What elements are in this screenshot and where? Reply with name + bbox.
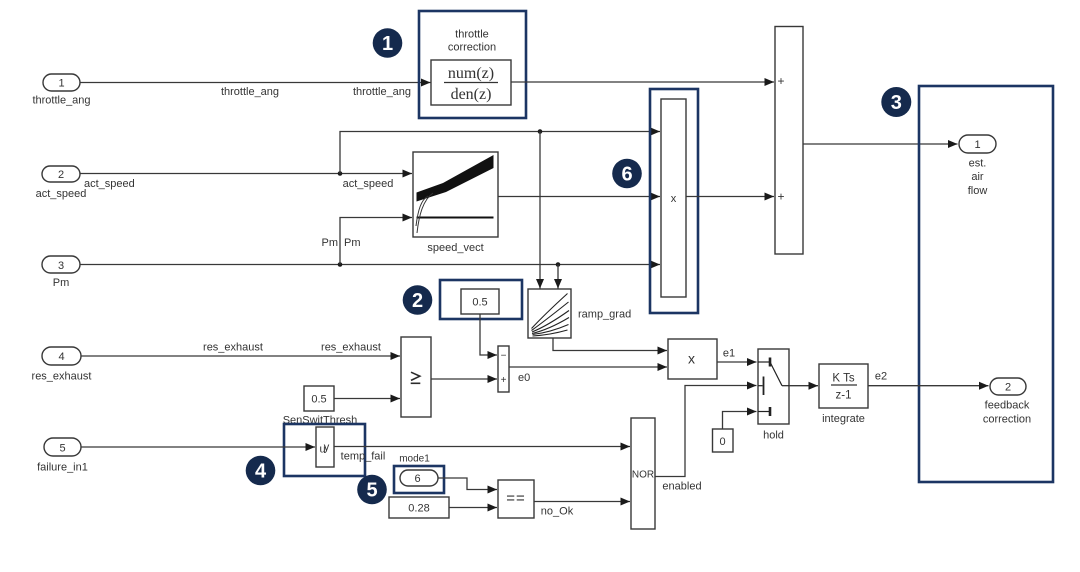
relational operator >= [401,337,431,417]
svg-text:+: + [501,375,507,386]
svg-text:5: 5 [59,443,65,455]
svg-text:e1: e1 [723,348,735,360]
svg-text:air: air [971,171,984,183]
svg-text:x: x [688,351,695,367]
annotation badge 2 [403,285,433,315]
svg-text:Pm: Pm [322,237,339,249]
svg-text:throttle_ang: throttle_ang [32,95,90,107]
svg-text:correction: correction [448,42,496,54]
inport 5 failure_in1 [37,438,88,474]
wire speed_vect to product [498,196,660,198]
logic block NOR [631,418,655,529]
wire switch to integrate [789,385,818,387]
wire 0.5 to sum e0 minus [480,314,497,355]
lookup block ramp_grad [528,289,631,338]
transfer-function block throttle correction num(z)/den(z) [431,60,511,105]
svg-text:ramp_grad: ramp_grad [578,309,631,321]
highlight box around constant 0.5 [440,280,522,319]
wire e0 to product [509,367,667,384]
wire e1 to switch [717,348,757,363]
svg-text:integrate: integrate [822,413,865,425]
discrete transfer block integrate K Ts / z-1 [819,364,868,425]
wire act_speed to speed_vect [80,171,412,190]
wire Pm to product [80,262,660,267]
highlight box around product [650,89,698,313]
highlight box around throttle correction [419,11,526,118]
wire e2 to outport 2 [868,371,989,386]
svg-text:Pm: Pm [344,237,361,249]
svg-text:e2: e2 [875,371,887,383]
switch hold [758,349,789,442]
svg-text:res_exhaust: res_exhaust [203,342,263,354]
svg-text:4: 4 [255,461,267,483]
svg-text:3: 3 [58,260,64,272]
svg-text:speed_vect: speed_vect [427,242,483,254]
wire 0.5 threshold to relational operator [334,398,400,400]
svg-text:K Ts: K Ts [832,373,854,385]
svg-text:feedback: feedback [985,400,1030,412]
inport 3 Pm [42,256,80,289]
constant 0.5 (threshold) [304,386,334,411]
svg-text:x: x [671,193,677,205]
svg-text:e0: e0 [518,372,530,384]
svg-text:den(z): den(z) [451,86,492,103]
wire Pm branch up to speed_vect input 2 [322,218,413,265]
svg-text:est.: est. [969,158,987,170]
wire branch down to ramp_grad input 1 [539,132,541,289]
svg-text:hold: hold [763,430,784,442]
wire 0.28 to equality [449,507,497,509]
svg-text:6: 6 [621,164,632,186]
inport 4 res_exhaust [32,347,92,383]
highlight box outputs [919,86,1053,482]
wire ramp_grad to product e1 [553,338,667,351]
wire enabled NOR to switch [655,386,757,493]
svg-text:throttle: throttle [455,29,489,41]
annotation badge 5 [357,475,387,505]
svg-text:0.5: 0.5 [311,394,326,406]
svg-text:NOR: NOR [632,470,654,481]
svg-text:1: 1 [382,33,393,55]
svg-text:6: 6 [414,473,420,485]
wire throttle_ang to throttle correction [80,83,431,99]
wire sum to outport 1 [803,143,958,145]
svg-text:+: + [777,190,784,204]
wire act_speed branch up to product [340,129,660,173]
svg-text:2: 2 [1005,382,1011,394]
inport 2 act_speed [36,166,87,200]
product block x (e1) [668,339,717,379]
svg-text:5: 5 [366,480,377,502]
wire relational operator to sum e0 plus [431,378,497,380]
svg-text:Pm: Pm [53,277,70,289]
svg-text:correction: correction [983,414,1031,426]
svg-text:+: + [777,74,784,88]
annotation badge 4 [246,456,276,486]
svg-text:act_speed: act_speed [84,178,135,190]
svg-text:act_speed: act_speed [36,188,87,200]
svg-text:1: 1 [58,78,64,90]
sum block e0 [498,346,509,392]
constant mode1 oval 6 [400,470,438,486]
sum block [775,27,803,255]
svg-text:temp_fail: temp_fail [341,451,386,463]
block SenSwitThresh [316,427,334,467]
svg-text:failure_in1: failure_in1 [37,462,88,474]
constant 0.5 (ramp reference) [461,289,499,314]
outport 1 est. air flow [959,135,996,197]
svg-text:no_Ok: no_Ok [541,506,574,518]
svg-text:4: 4 [58,351,64,363]
relational operator == [498,480,534,518]
svg-text:0.28: 0.28 [408,503,429,515]
wire product to sum [686,196,774,198]
annotation badge 1 [373,28,403,58]
wire mode1 to equality [438,478,497,490]
svg-text:1: 1 [974,139,980,151]
svg-text:res_exhaust: res_exhaust [321,342,381,354]
wire no_Ok to NOR [534,502,630,518]
svg-text:enabled: enabled [662,481,701,493]
svg-text:res_exhaust: res_exhaust [32,371,92,383]
svg-text:2: 2 [412,290,423,312]
svg-text:2: 2 [58,169,64,181]
wire failure_in1 to SenSwitThresh [81,446,315,448]
svg-text:z-1: z-1 [836,390,852,402]
inport 1 throttle_ang [32,74,90,107]
wire temp_fail to NOR [334,447,630,463]
outport 2 feedback correction [983,378,1031,426]
constant 0 [713,429,734,452]
wire 0 to switch [723,412,757,430]
wire Pm branch down to ramp_grad input 2 [557,265,559,289]
svg-text:−: − [501,351,507,362]
wire res_exhaust to relational operator [81,342,400,357]
constant 0.28 [389,497,449,518]
svg-text:==: == [506,490,526,507]
lookup block speed_vect [413,152,498,254]
svg-text:num(z): num(z) [448,65,494,82]
svg-text:throttle_ang: throttle_ang [353,86,411,98]
svg-text:3: 3 [891,92,902,114]
svg-text:flow: flow [968,185,988,197]
annotation badge 6 [612,159,642,189]
annotation badge 3 [881,87,911,117]
highlight box SenSwitThresh [284,424,365,476]
svg-text:0.5: 0.5 [472,297,487,309]
svg-text:y: y [324,442,330,454]
svg-text:mode1: mode1 [399,454,430,465]
label mode1 [399,454,430,465]
svg-text:throttle_ang: throttle_ang [221,86,279,98]
svg-text:0: 0 [719,436,725,448]
label SenSwitThresh [283,415,358,427]
highlight box mode1 [394,466,444,493]
svg-text:act_speed: act_speed [343,178,394,190]
wire throttle correction to sum [511,81,774,83]
product block x (air flow) [661,99,686,297]
